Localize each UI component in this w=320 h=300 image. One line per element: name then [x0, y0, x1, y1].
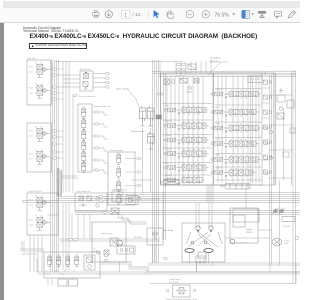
accumulator sub circle	[112, 240, 117, 245]
labels left section rows	[166, 104, 172, 177]
spool row: arm 2	[211, 108, 259, 117]
svg-text:Pilot Shut-off Valve: Pilot Shut-off Valve	[113, 189, 127, 192]
node SV4 port 6	[95, 169, 99, 171]
pilot shutoff symbol	[129, 198, 133, 203]
node shutoff port 3	[106, 81, 110, 83]
labels right section rows	[216, 89, 223, 170]
svg-text:Raise: Raise	[29, 67, 33, 69]
node travel port 1	[69, 239, 73, 241]
toolbar presentation icon	[258, 11, 266, 18]
spool row: aux	[164, 163, 209, 172]
wire SV4 port out 1	[99, 111, 105, 113]
wire SV4 elbow 2	[103, 124, 105, 127]
wire bus elbow left	[22, 241, 24, 251]
node pilot port 87	[53, 86, 57, 88]
wire valve bank left feed	[164, 73, 166, 240]
pilot filter element	[152, 230, 158, 240]
pilot valve unit PV1 (front attachment)	[27, 60, 52, 105]
wire right section row links	[215, 89, 261, 181]
node aux 2	[99, 200, 103, 202]
wire right bus 2	[279, 180, 281, 265]
svg-text:Lower: Lower	[29, 203, 34, 206]
top check box	[188, 64, 196, 70]
pilot filter box	[147, 228, 163, 245]
travel pilot valve unit	[27, 193, 58, 235]
wire SV4 port out 2	[99, 123, 105, 125]
viewer top strip	[3, 1, 301, 8]
document small header line 1	[23, 26, 61, 30]
wire right drop 2	[269, 265, 271, 272]
pressure sensor box right	[287, 100, 294, 108]
node pilot port 137	[53, 136, 57, 138]
wire SV4 port out 3	[99, 135, 105, 137]
wire feed to pump area	[162, 193, 164, 241]
right cluster components	[277, 88, 285, 110]
wire right section mesh	[218, 76, 259, 183]
cable unit box	[117, 246, 135, 254]
node shockless port 3	[137, 184, 141, 186]
wire bottom bus 1	[148, 263, 300, 265]
wire right bus 1	[270, 75, 272, 265]
wire riser continuation	[63, 203, 69, 270]
pilot ports box ovals	[250, 78, 258, 80]
solenoid valve SV4-4	[82, 140, 86, 152]
wire bundle to SV4	[62, 176, 78, 178]
wire top supply bus a	[153, 72, 297, 74]
bucket cylinder	[148, 132, 155, 149]
swash plate ellipse 2	[204, 249, 213, 253]
bottom solenoid valve 4	[75, 255, 79, 267]
solenoid valve unit SV4	[78, 104, 92, 172]
wire SV4 port out 4	[99, 147, 105, 149]
right symbol column	[264, 80, 272, 174]
toolbar zoom caret	[232, 13, 235, 15]
pump drain stubs	[190, 253, 209, 266]
control valve right section housing	[214, 73, 263, 185]
svg-text:Power: Power	[60, 273, 65, 276]
wire SV4 across 4	[104, 150, 108, 152]
pilot valve unit PV2	[27, 123, 52, 172]
wire pilot bus left	[51, 60, 59, 273]
solenoid valve SV4-1	[82, 107, 86, 119]
wire boom cyl drop 1	[142, 128, 144, 193]
svg-text:Lower: Lower	[29, 134, 34, 137]
svg-text:Engine: Engine	[246, 229, 253, 231]
node top port R3	[181, 73, 185, 75]
svg-text:SF: SF	[73, 271, 75, 273]
coolant pump oval	[272, 239, 282, 246]
svg-text:Lower: Lower	[29, 91, 34, 94]
spool row: travel left	[164, 149, 209, 158]
wire step down to bottom bus	[100, 262, 300, 272]
wire SV4 left feed	[72, 95, 74, 193]
pilot valve section PV2-b	[35, 149, 50, 164]
node SV4 port 5	[95, 159, 99, 161]
wire boom cyl drop 2	[150, 128, 152, 134]
svg-text:Travel Pilot Valve: Travel Pilot Valve	[28, 190, 42, 193]
spool row: arm regen	[211, 124, 261, 133]
svg-text:pump: pump	[284, 243, 288, 245]
svg-text:SC: SC	[64, 271, 67, 273]
accumulator vessel	[117, 240, 123, 246]
wire cooler drop	[119, 262, 121, 272]
wire SV4 across 6	[104, 172, 108, 174]
regulator pilot 1	[191, 241, 194, 244]
control valve left section housing	[161, 73, 214, 185]
check valve cluster top left section	[164, 79, 199, 93]
wire dark bundle segment	[58, 168, 62, 196]
wire filter drop	[154, 245, 156, 263]
wire travel out	[48, 214, 59, 216]
wire shutoff to port 2	[93, 77, 106, 79]
svg-text:Raise: Raise	[29, 220, 33, 222]
wire top supply bus b	[159, 75, 297, 77]
right section bottom manifold	[221, 184, 250, 190]
spool row: swing	[164, 136, 209, 145]
svg-text:Priming pump: Priming pump	[236, 242, 246, 245]
svg-text:Bypass: Bypass	[216, 168, 221, 170]
pilot pump B	[278, 208, 285, 215]
swash plate ellipse 1	[185, 249, 194, 253]
toolbar pen icon	[288, 11, 295, 18]
svg-text:Arm 1: Arm 1	[166, 104, 170, 107]
svg-text:Control Valve: Control Valve	[169, 278, 180, 281]
engine inner box	[233, 215, 245, 227]
wire right corner drop	[295, 265, 297, 284]
pilot pump A	[272, 208, 279, 215]
toolbar page number input	[122, 10, 131, 18]
node pilot port 69	[53, 68, 57, 70]
wire leader swing label	[208, 62, 221, 75]
wire pilot top	[55, 61, 183, 63]
node top port L3	[176, 73, 180, 75]
wire left section mesh	[167, 76, 203, 183]
wire bus step 1	[118, 213, 147, 223]
wire SV4 port 3	[92, 135, 95, 137]
node aux 1	[99, 195, 103, 197]
spool row: travel right	[211, 90, 261, 99]
node SV4 port 3	[95, 135, 99, 137]
node shutoff port 2	[106, 77, 110, 79]
wire SV4 across 5	[104, 162, 108, 164]
node return port b	[160, 93, 163, 95]
solenoid valve SV4-2	[82, 118, 86, 130]
wire travel link pair	[20, 249, 44, 251]
wire shockless to return	[131, 179, 153, 181]
engine block	[230, 208, 258, 243]
svg-text:6WF1W: 6WF1W	[246, 232, 253, 234]
wire label underline	[209, 61, 228, 63]
svg-text:Pilot Valve: Pilot Valve	[28, 57, 37, 60]
pump swash diagonals	[186, 232, 222, 247]
wire shuttle drops	[72, 214, 90, 239]
node travel port 2	[74, 239, 78, 241]
wire risers to valve bank	[176, 62, 211, 74]
shockless valve section 3	[117, 180, 121, 192]
bottom small box circles	[120, 248, 134, 252]
solenoid valve SV4-3	[82, 129, 86, 141]
wire SV4 elbow 3	[103, 136, 105, 139]
node mid 1	[132, 198, 136, 200]
wire pilot to shutoff 4	[63, 86, 80, 88]
document small header line 2	[23, 29, 79, 33]
svg-text:Swing: Swing	[166, 135, 170, 137]
wire travel box drops	[30, 235, 42, 272]
control valve outer housing	[161, 73, 276, 185]
bottom solenoid valve 3	[66, 255, 70, 267]
node right small	[296, 237, 299, 240]
node top port R1	[181, 63, 185, 65]
regulator pilot 2	[204, 241, 207, 244]
svg-text:Main Pump: Main Pump	[163, 230, 174, 232]
wire pilot to shutoff 1	[63, 74, 80, 76]
spool row: arm 1	[164, 106, 209, 115]
wire SV4 elbow 5	[103, 160, 105, 163]
legend valve box	[173, 285, 191, 297]
wire right section inner bundle	[251, 76, 253, 183]
toolbar page view icon	[242, 10, 250, 18]
node pump left port	[164, 257, 168, 259]
toolbar zoom in	[202, 11, 209, 18]
wire pilot return pair	[60, 239, 160, 241]
valve symbol shut-off B	[83, 82, 88, 90]
bottom solenoid valve 2	[57, 255, 61, 267]
svg-text:Cable Unit: Cable Unit	[117, 243, 125, 246]
node pilot port 93	[53, 92, 57, 94]
wire outer housing inner bus	[274, 73, 276, 185]
node pilot port 131	[53, 130, 57, 132]
wire leader boom cylinder	[128, 90, 139, 107]
legend port left	[166, 289, 169, 292]
solenoid valve unit bottom	[44, 252, 100, 278]
svg-text:Raise: Raise	[29, 154, 33, 156]
node SV4 port 4	[95, 147, 99, 149]
wire lower bus	[75, 211, 300, 215]
pump bottom port block	[198, 252, 206, 258]
spool row: bucket conflux	[211, 139, 259, 148]
wire pilot riser group	[63, 62, 69, 193]
wire mid page bus b	[58, 197, 300, 199]
main pump 2 drive	[209, 226, 213, 230]
svg-text:Travel L: Travel L	[166, 149, 172, 151]
right check valve	[277, 113, 284, 119]
svg-text:Lower: Lower	[29, 70, 34, 73]
top check box diag	[188, 64, 196, 70]
node pilot port 75	[53, 74, 57, 76]
wire solenoid drop	[36, 258, 38, 272]
wire pump feed bus	[196, 203, 212, 228]
node return port a	[157, 93, 160, 95]
toolbar select arrow tool	[154, 10, 160, 18]
svg-text:Oil cooler: Oil cooler	[283, 225, 291, 228]
wire filter drop b	[152, 245, 154, 263]
wire SV4 port 4	[92, 147, 95, 149]
wire SV4 elbow 6	[103, 170, 105, 173]
bottom unit inner valve	[84, 255, 95, 270]
wire pilot to shutoff 3	[63, 82, 80, 84]
oil cooler symbol	[96, 250, 109, 255]
accumulator / oil cooler block	[92, 222, 126, 262]
wire SV4 port 1	[92, 111, 95, 113]
wire right dashed drop	[283, 108, 285, 180]
toolbar zoom out	[186, 11, 193, 18]
wire left section row links	[162, 104, 212, 176]
svg-text:Raise: Raise	[29, 131, 33, 133]
svg-text:SI: SI	[46, 271, 48, 273]
wire return bus center	[153, 60, 159, 263]
bottom solenoid valve 1	[48, 255, 52, 267]
wire bank-to-right stubs	[262, 88, 293, 178]
wire SV4 across 3	[104, 138, 108, 140]
solenoid valve SV4-5	[82, 151, 86, 163]
wire bottom bus 2	[37, 272, 300, 274]
main pump 1 triangle	[197, 230, 200, 233]
travel pilot section b	[35, 215, 50, 230]
main pump 1 drive	[196, 226, 200, 230]
radiator box	[282, 217, 295, 222]
node bottom port 1	[104, 254, 108, 256]
svg-text:Travel: Travel	[46, 273, 51, 276]
spool row: spare	[211, 155, 261, 164]
wire pump feed bus upper	[207, 185, 213, 203]
right column extra components	[269, 128, 295, 160]
node mid 2	[137, 198, 141, 200]
main pump 2 triangle	[210, 230, 213, 233]
wire shutoff to port 3	[93, 82, 106, 84]
wire shockless port 1	[125, 158, 137, 160]
pilot valve section PV2-a	[35, 126, 50, 141]
wire mid page bus 2	[22, 201, 300, 203]
wire engine to cooler	[258, 229, 272, 231]
wire pump drain 3	[196, 262, 198, 272]
wire right inner edge	[291, 73, 293, 185]
node shutoff port 1	[106, 72, 110, 74]
document title	[30, 33, 258, 40]
pump sub box bottom	[196, 256, 206, 262]
wire top bend	[159, 62, 161, 74]
svg-text:Bucket Cylinder: Bucket Cylinder	[131, 130, 145, 133]
svg-text:Shockless valve: Shockless valve	[110, 150, 123, 152]
wire SV4 across 1	[104, 114, 108, 116]
shockless drain junction	[111, 208, 119, 214]
toolbar download icon	[105, 11, 112, 18]
labels under bottom solenoid valves	[46, 271, 75, 276]
svg-text:Spare: Spare	[216, 155, 220, 157]
svg-text:Lower: Lower	[29, 157, 34, 160]
wire mid page bus a	[107, 193, 300, 195]
node SV4 port 1	[95, 111, 99, 113]
shockless valve section 1	[117, 153, 121, 165]
wire bottom single	[150, 283, 296, 285]
svg-text:Travel R: Travel R	[216, 89, 223, 91]
wires below bottom box	[48, 278, 73, 286]
node bus port b	[109, 211, 113, 213]
wire shutoff to port 4	[93, 86, 106, 88]
pilot valve section PV1-a	[35, 62, 50, 77]
node SV4 port 2	[95, 123, 99, 125]
svg-text:Boom anti-drift valve: Boom anti-drift valve	[79, 95, 95, 98]
node pilot port 152	[53, 151, 57, 153]
left section bottom manifold	[160, 180, 179, 185]
main pump unit housing	[182, 223, 225, 262]
wire pump drain 1	[196, 262, 198, 272]
junction block	[156, 115, 162, 119]
node top port L2	[176, 68, 180, 70]
shuttle valve block	[75, 193, 107, 211]
wire SV4 port out 6	[99, 169, 105, 171]
wire SV4 port 5	[92, 159, 95, 161]
svg-text:Boom 2: Boom 2	[166, 175, 172, 177]
node pilot port 99	[53, 98, 57, 100]
wire pilot oval stubs	[52, 69, 64, 158]
svg-text:(Qty-11)-22k: (Qty-11)-22k	[169, 281, 179, 284]
svg-text:Lower: Lower	[29, 223, 34, 226]
caution box	[29, 43, 87, 50]
svg-text:Raise: Raise	[29, 88, 33, 90]
spool row: boom 2	[164, 176, 205, 185]
node shutoff port 4	[106, 86, 110, 88]
wire pump drain 2	[212, 262, 214, 265]
svg-text:Aux: Aux	[166, 162, 169, 165]
bottom sub-box 1	[58, 279, 67, 286]
node shockless port 4	[137, 197, 141, 199]
wire right bus tap	[264, 72, 266, 76]
toolbar separator	[148, 11, 150, 19]
safety shut-off valve block	[80, 71, 93, 91]
wire shockless port 4	[125, 198, 137, 200]
pilot shut-off valve box	[126, 196, 138, 205]
wire shutoff to port 1	[93, 73, 106, 75]
wire SV4 port out 5	[99, 159, 105, 161]
node top port R2	[181, 68, 185, 70]
node shockless port 1	[137, 157, 141, 159]
svg-text:Boom Cylinder: Boom Cylinder	[116, 89, 129, 91]
svg-text:Pilot Filter: Pilot Filter	[134, 236, 143, 239]
wire valve to engine	[245, 185, 247, 208]
travel pilot section a	[35, 195, 50, 210]
boom cylinder 1	[140, 106, 147, 126]
pilot ports box top right	[248, 76, 262, 83]
wire SV4 elbow 1	[103, 112, 105, 115]
legend valve symbol	[176, 288, 187, 295]
node bottom port 2	[104, 259, 108, 261]
valve symbol shut-off A	[84, 72, 89, 79]
wire far right bus	[293, 70, 296, 283]
node bus port a	[103, 211, 107, 213]
wire SV4 elbow 4	[103, 148, 105, 151]
wire bus step 2	[122, 215, 147, 225]
wire bucket cyl drop	[150, 147, 152, 193]
check valve box lower	[112, 191, 122, 202]
svg-text:Arm 2: Arm 2	[216, 106, 220, 109]
accumulator sub box	[110, 238, 118, 246]
content background strip	[0, 23, 4, 300]
toolbar printer icon	[93, 11, 99, 18]
shuttle valve symbols	[79, 196, 99, 207]
wire SV4 across 2	[104, 126, 108, 128]
toolbar hand tool	[167, 10, 174, 18]
svg-text:Regen: Regen	[216, 123, 221, 125]
node boom hold	[73, 94, 77, 96]
svg-text:Bucket 2: Bucket 2	[216, 138, 222, 141]
wire step down echo	[100, 264, 146, 274]
engine sub box	[233, 209, 259, 222]
bottom sub-box 2	[69, 279, 78, 286]
priming pump	[230, 239, 234, 243]
wire shockless port 2	[125, 171, 137, 173]
shockless valve block	[108, 152, 135, 205]
shockless valve section 4	[117, 193, 121, 205]
